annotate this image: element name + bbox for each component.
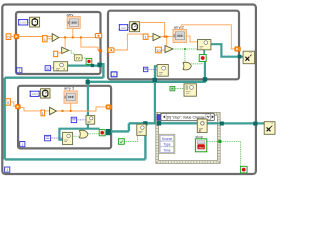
orange SR right tunnel (loop3)	[106, 105, 112, 110]
outer while loop frame	[2, 5, 256, 175]
green wire to event structure	[124, 136, 137, 142]
svg-text:1000: 1000	[31, 92, 38, 96]
event timeout terminal	[157, 115, 162, 121]
VI icon node (above event structure)	[184, 84, 196, 96]
wire: red node1 drop stub	[91, 65, 93, 66]
wire: loop2 node B drop to event structure	[155, 66, 157, 123]
iteration terminal i (loop1)	[17, 68, 22, 73]
wire: branch down into loop3	[87, 82, 89, 116]
svg-text:stop: stop	[199, 145, 204, 149]
while loop 2 frame (top-right)	[108, 11, 239, 80]
svg-text:Type: Type	[163, 143, 170, 147]
event data node Source/Type/Time	[159, 134, 175, 153]
wire: select to red node2 stub	[203, 50, 205, 55]
yellow node X2 (loop3)	[63, 132, 73, 144]
OR gate (loop3)	[79, 130, 88, 138]
wire: loop3 inner teal L	[59, 129, 99, 140]
blue terminal (loop3 mid)	[71, 117, 76, 122]
yellow node left of event structure	[137, 124, 146, 135]
numeric constant 1 (loop2)	[143, 34, 148, 39]
orange tunnel loop1 right lower	[99, 49, 102, 52]
teal junction: riser joint	[143, 121, 147, 125]
X stop-function node 1 (right of loop2)	[243, 51, 255, 64]
teal tunnel: loop3 right exit	[106, 129, 111, 135]
wire: event structure through line	[157, 122, 222, 124]
numeric constant 0 (outside loop1)	[6, 34, 11, 40]
array indicator arry 3 (loop3)	[64, 91, 77, 103]
yellow node B (loop2)	[157, 65, 168, 77]
svg-text:Source: Source	[162, 137, 173, 141]
boolean red-dot node (loop3)	[99, 130, 105, 136]
event structure frame	[157, 114, 219, 162]
IV node (loop1)	[74, 55, 82, 61]
wire: upper bus horizontal	[5, 76, 104, 78]
teal tunnel loop2 right (select out)	[238, 55, 242, 59]
green boolean constant (outside loop3)	[118, 139, 124, 145]
blue terminal (loop3 bottom-left)	[45, 135, 51, 140]
teal junction: outer border tunnel	[253, 122, 257, 126]
green wire to IV node	[69, 50, 75, 55]
while loop 1 frame (top-left)	[16, 12, 101, 74]
svg-text:arry 3: arry 3	[64, 86, 75, 91]
green boolean constant (above event structure)	[170, 86, 175, 90]
svg-text:arry 2: arry 2	[174, 24, 185, 29]
shift register left (loop1)	[14, 34, 19, 39]
wait ms clock node (loop3)	[41, 89, 50, 98]
orange wires loop3	[20, 103, 106, 111]
select node (loop2)	[198, 40, 211, 50]
wire: lower bus horizontal	[88, 81, 206, 83]
teal junction: loop1 tunnel	[97, 63, 101, 68]
array indicator arry 2 (loop2)	[173, 29, 186, 42]
green wire to VI node	[175, 88, 184, 90]
wire: loop1 exit down to bus	[102, 64, 104, 78]
wire: loop3 red node branch riser	[128, 123, 130, 131]
array indicator arry (loop1)	[67, 17, 80, 29]
teal junction: event right tunnel	[220, 122, 224, 126]
teal junction: event left tunnel	[157, 121, 161, 126]
teal through-wire (redrawn over frame)	[157, 122, 222, 124]
shift register left (loop2)	[108, 48, 114, 52]
svg-text:Time: Time	[163, 148, 170, 152]
wire: riser to event structure	[144, 123, 146, 159]
comparison triangle (loop2)	[165, 46, 173, 53]
boolean red-dot node (bottom right)	[240, 166, 247, 173]
numeric constant (loop1 lower)	[54, 51, 58, 56]
teal junction: bus-loop2 nodeB line	[153, 78, 158, 82]
X stop-function node 2 (bottom right, outside frame)	[264, 122, 275, 135]
comparison triangle (loop1 lower)	[62, 47, 69, 53]
numeric constant 1000 (loop3)	[30, 91, 39, 96]
wire: loop2 red node drop	[204, 62, 206, 82]
OR gate (loop2)	[183, 62, 191, 70]
stop button terminal	[195, 139, 206, 152]
svg-text:10: 10	[156, 48, 161, 53]
numeric constant 1000 (loop1)	[19, 20, 28, 25]
numeric constant 1 (loop1)	[43, 36, 48, 42]
wire: event exit to X node 2	[222, 122, 265, 124]
boolean red-dot node (loop1)	[86, 58, 92, 64]
svg-text:IV: IV	[76, 56, 80, 61]
increment triangle (loop2)	[153, 34, 160, 41]
shift register left (loop3)	[16, 104, 21, 109]
green wires loop2	[173, 49, 202, 64]
orange wires loop2	[114, 22, 235, 50]
wait ms clock node (loop2)	[129, 22, 139, 32]
while loop 3 frame (bottom-left)	[18, 86, 111, 149]
add function triangle (loop1)	[52, 34, 59, 42]
wire: upper-lower bus link	[86, 78, 88, 82]
svg-text:i: i	[114, 72, 115, 77]
orange wires loop1	[11, 29, 101, 51]
svg-text:32: 32	[46, 67, 50, 71]
add triangle (loop3)	[50, 107, 57, 114]
wire: teal inside loop1	[68, 64, 98, 66]
iteration terminal i (loop2)	[111, 72, 117, 77]
event selector header	[161, 113, 214, 120]
wire: loop3 exit horizontal	[111, 130, 129, 132]
wire blue	[28, 21, 30, 23]
green wire to red node (outside)	[221, 141, 240, 166]
boolean red-dot node (loop2)	[199, 55, 206, 62]
svg-text:arry: arry	[67, 12, 74, 17]
wire: left vertical bus	[3, 78, 5, 160]
numeric constant 0 (outside loop3)	[6, 99, 11, 106]
teal junction: bus-loop3 branch	[86, 80, 90, 84]
green wire from stop terminal to edge	[207, 140, 220, 142]
yellow node A (loop1)	[54, 62, 68, 71]
iteration terminal i (outer loop)	[5, 167, 10, 172]
svg-text:100: 100	[121, 26, 126, 30]
wire: bottom bus horizontal	[5, 158, 146, 160]
wire: into event structure left	[129, 122, 157, 124]
yellow node C (loop3)	[86, 116, 95, 125]
teal merge arrow under red node1	[91, 64, 94, 67]
numeric constant 10 (loop2)	[156, 47, 162, 53]
numeric constant 100 (loop2)	[119, 25, 127, 31]
orange wire const to SR3	[10, 102, 15, 107]
green wires loop3	[73, 134, 100, 136]
green junction on event border	[218, 140, 221, 143]
iteration terminal i (loop3)	[20, 142, 25, 147]
numeric constant 1 (loop3)	[41, 110, 45, 116]
svg-text:1000: 1000	[20, 21, 27, 25]
green wire to stop node	[82, 57, 86, 59]
blue terminal (loop2 bottom)	[144, 67, 148, 72]
orange tunnel loop1 right (unwired)	[95, 34, 101, 38]
small glyph node above stop terminal	[197, 119, 207, 133]
wait ms clock node (loop1)	[30, 17, 40, 27]
junction dots	[64, 36, 66, 38]
orange SR right tunnel (loop2)	[235, 47, 241, 52]
svg-text:1: 1	[42, 112, 44, 116]
blue rep terminal (loop1)	[45, 66, 51, 71]
wire: select output to X node 1	[211, 44, 243, 57]
teal junction: bus-loop2 red drop	[203, 77, 207, 81]
svg-text:stop: stop	[195, 134, 203, 139]
